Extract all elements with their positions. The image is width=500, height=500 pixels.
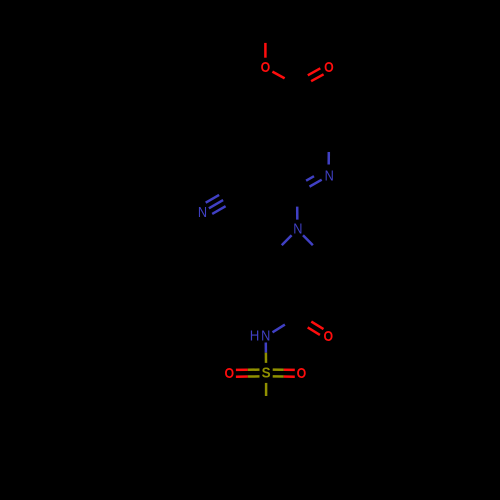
cyclopentane bond 5-1 xyxy=(237,409,266,430)
svg-text:O: O xyxy=(324,329,334,345)
pyridine bond C5-C4 xyxy=(266,121,297,139)
svg-text:O: O xyxy=(297,366,307,382)
bond C(=O)-NH amide xyxy=(273,317,298,332)
double bond S=O right xyxy=(273,370,295,377)
bond C2-N azetidine xyxy=(296,194,299,220)
azetidine bond N-C8 xyxy=(303,235,323,255)
azetidine bond N-C10 xyxy=(272,235,292,255)
svg-text:N: N xyxy=(293,221,302,238)
pyridine double bond C2=N1 xyxy=(297,176,322,193)
pyridine double bond C6=C5 xyxy=(297,121,329,143)
double bond S=O left xyxy=(236,370,260,377)
pyridine double bond C4=C3 xyxy=(266,139,273,175)
azetidine bond C8-C9 xyxy=(297,255,323,281)
svg-text:N: N xyxy=(261,328,270,345)
cyclopentane bond 3-4 xyxy=(248,464,284,467)
azetidine bond C10-C9 xyxy=(272,255,298,281)
svg-text:N: N xyxy=(325,168,334,185)
bond C9-C(=O) amide xyxy=(296,281,299,317)
cyclopentane bond 1-2 xyxy=(266,409,295,430)
svg-text:N: N xyxy=(198,204,207,221)
double bond C=O (ester carbonyl) xyxy=(295,68,323,88)
svg-text:S: S xyxy=(262,365,271,381)
cyclopentane bond 2-3 xyxy=(284,431,295,466)
pyridine bond N1-C6 xyxy=(327,139,330,164)
bond O-C(=O) ester xyxy=(272,72,297,86)
triple bond C#N nitrile xyxy=(206,189,236,214)
svg-text:O: O xyxy=(261,60,271,76)
cyclopentane bond 4-5 xyxy=(237,431,248,466)
svg-text:H: H xyxy=(250,328,260,345)
bond C3-C (nitrile attach) xyxy=(233,175,265,194)
double bond C=O (amide) xyxy=(296,314,324,335)
svg-text:O: O xyxy=(324,60,334,76)
svg-text:O: O xyxy=(225,366,235,382)
pyridine bond C3-C2 xyxy=(266,175,297,193)
bond S-C cyclopentyl xyxy=(265,383,268,409)
bond C(=O)-C5 pyridine xyxy=(296,85,299,121)
bond CH3-O (ester methyl) xyxy=(264,28,267,58)
bond N-S sulfonamide xyxy=(265,343,268,363)
